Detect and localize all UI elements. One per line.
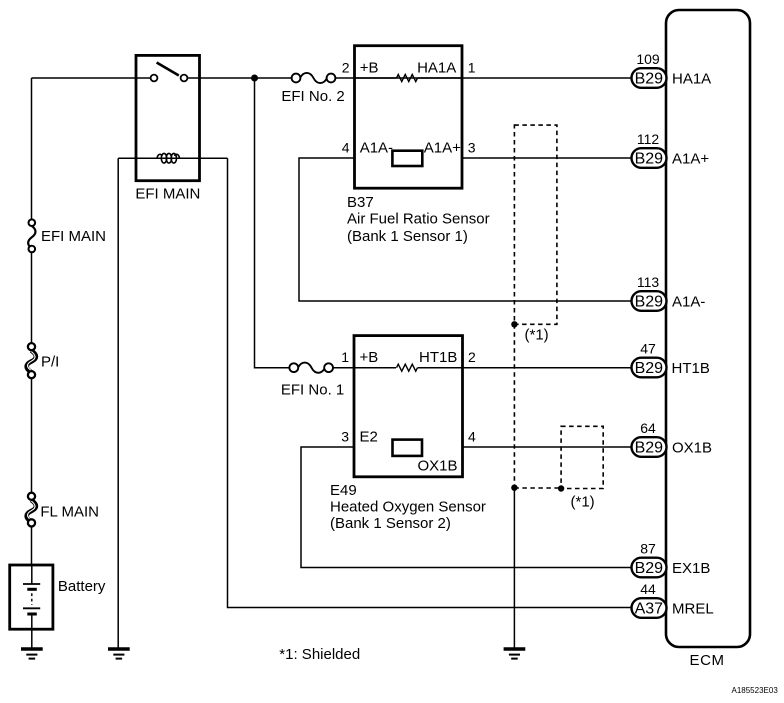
svg-text:OX1B: OX1B xyxy=(672,439,712,456)
svg-text:MREL: MREL xyxy=(672,600,714,617)
svg-text:112: 112 xyxy=(637,131,660,147)
svg-text:A1A+: A1A+ xyxy=(424,140,461,157)
svg-text:*1: Shielded: *1: Shielded xyxy=(279,646,360,663)
svg-text:4: 4 xyxy=(342,140,350,156)
svg-text:B29: B29 xyxy=(635,70,664,87)
svg-text:44: 44 xyxy=(640,581,656,597)
svg-text:EFI MAIN: EFI MAIN xyxy=(41,228,106,245)
svg-text:B29: B29 xyxy=(635,293,664,310)
svg-text:(Bank 1 Sensor 2): (Bank 1 Sensor 2) xyxy=(330,515,451,532)
svg-text:HA1A: HA1A xyxy=(672,70,711,87)
svg-text:(*1): (*1) xyxy=(571,494,595,511)
svg-text:A37: A37 xyxy=(635,600,664,617)
svg-text:B29: B29 xyxy=(635,439,664,456)
svg-text:EFI No. 2: EFI No. 2 xyxy=(281,88,344,105)
svg-text:A1A-: A1A- xyxy=(672,293,705,310)
svg-text:ECM: ECM xyxy=(690,652,725,669)
svg-text:B37: B37 xyxy=(347,194,374,211)
svg-text:HT1B: HT1B xyxy=(419,349,457,366)
svg-text:E49: E49 xyxy=(330,482,357,499)
svg-text:47: 47 xyxy=(640,341,656,357)
svg-text:Heated Oxygen Sensor: Heated Oxygen Sensor xyxy=(330,499,486,516)
svg-text:B29: B29 xyxy=(635,560,664,577)
svg-text:2: 2 xyxy=(468,349,476,365)
svg-text:A185523E03: A185523E03 xyxy=(732,686,779,695)
svg-text:3: 3 xyxy=(468,140,476,156)
svg-text:EFI No. 1: EFI No. 1 xyxy=(281,382,344,399)
svg-text:B29: B29 xyxy=(635,360,664,377)
svg-text:OX1B: OX1B xyxy=(418,458,458,475)
svg-text:1: 1 xyxy=(341,349,349,365)
svg-text:B29: B29 xyxy=(635,150,664,167)
svg-text:FL MAIN: FL MAIN xyxy=(40,504,99,521)
svg-text:2: 2 xyxy=(342,60,350,76)
svg-text:+B: +B xyxy=(360,60,379,77)
svg-text:P/I: P/I xyxy=(41,353,59,370)
svg-text:EX1B: EX1B xyxy=(672,560,710,577)
svg-text:E2: E2 xyxy=(360,429,378,446)
svg-text:EFI MAIN: EFI MAIN xyxy=(135,186,200,203)
svg-text:87: 87 xyxy=(640,541,656,557)
svg-text:A1A-: A1A- xyxy=(360,140,393,157)
svg-text:1: 1 xyxy=(468,60,476,76)
svg-text:A1A+: A1A+ xyxy=(672,150,709,167)
svg-text:+B: +B xyxy=(360,349,379,366)
svg-text:64: 64 xyxy=(640,420,656,436)
svg-text:(Bank 1 Sensor 1): (Bank 1 Sensor 1) xyxy=(347,228,468,245)
svg-text:3: 3 xyxy=(341,429,349,445)
svg-text:109: 109 xyxy=(636,51,660,67)
svg-text:113: 113 xyxy=(637,274,660,290)
svg-text:(*1): (*1) xyxy=(525,327,549,344)
svg-text:HT1B: HT1B xyxy=(672,360,710,377)
svg-text:Battery: Battery xyxy=(58,578,106,595)
svg-text:Air Fuel Ratio Sensor: Air Fuel Ratio Sensor xyxy=(347,211,490,228)
svg-text:HA1A: HA1A xyxy=(417,60,456,77)
svg-text:4: 4 xyxy=(468,429,476,445)
